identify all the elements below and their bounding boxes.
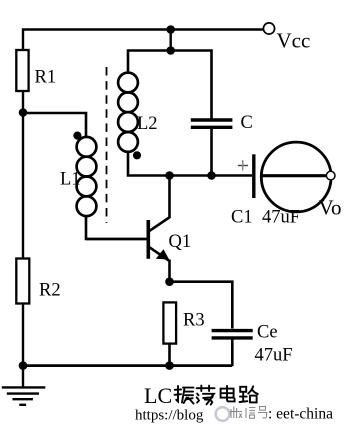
resistor R1	[16, 50, 28, 91]
phase dot L2	[133, 151, 141, 159]
wire left vertical (node A to R2)	[22, 113, 24, 261]
node C dot (collector junction)	[165, 171, 174, 180]
capacitor Ce bottom plate	[212, 336, 253, 339]
svg-text:Vo: Vo	[319, 196, 342, 220]
ground	[2, 366, 46, 405]
svg-text:Q1: Q1	[169, 232, 192, 252]
svg-text:https://blog: https://blog	[135, 408, 204, 424]
caption glyph 路	[240, 386, 258, 402]
svg-text:47uF: 47uF	[255, 346, 293, 366]
node G dot (ground rail left)	[19, 361, 28, 370]
wire R2 bottom to ground rail	[22, 304, 24, 367]
wire L1 bottom to Q1 base	[86, 215, 146, 239]
node F dot (R3 to rail)	[165, 361, 174, 370]
terminal Vo	[326, 171, 335, 180]
wire emitter to Ce branch	[170, 282, 233, 329]
node B2 dot	[166, 46, 175, 55]
capacitor Ce top plate	[212, 329, 253, 332]
collector wire	[168, 176, 171, 219]
base wire	[86, 238, 147, 241]
resistor R2	[16, 259, 29, 304]
wire top rail tap vertical	[169, 30, 171, 51]
svg-text:L1: L1	[60, 170, 81, 190]
watermark glyph 微	[230, 407, 242, 419]
collector diagonal	[148, 217, 170, 232]
svg-text:Vcc: Vcc	[277, 29, 311, 53]
wire L2 bottom to collector rail	[128, 151, 252, 176]
polarity + mark	[238, 160, 248, 171]
meter Vo circle	[261, 142, 331, 212]
wire node A to L1 top	[23, 113, 86, 138]
wire ground rail	[22, 364, 232, 367]
caption glyph 振	[175, 386, 194, 404]
wire R3 bottom to rail	[168, 344, 171, 366]
svg-text:R2: R2	[39, 281, 61, 301]
svg-text:R1: R1	[35, 68, 57, 88]
svg-text:L2: L2	[137, 114, 158, 134]
resistor R3	[163, 302, 176, 343]
capacitor C bottom plate	[191, 126, 233, 129]
svg-text:: eet-china: : eet-china	[268, 406, 333, 423]
emitter wire	[168, 260, 171, 283]
wire C bottom to rail	[210, 129, 213, 176]
transistor Q1	[86, 176, 170, 283]
watermark glyph 信	[246, 408, 256, 419]
wire Ce bottom to rail	[231, 340, 234, 367]
caption glyph 电	[221, 386, 235, 402]
wire left vertical (top rail to R1)	[22, 29, 24, 52]
inductor L2	[118, 73, 138, 152]
node D dot (C to rail)	[207, 171, 216, 180]
svg-text:C1: C1	[231, 208, 253, 228]
terminal Vcc	[263, 23, 274, 34]
svg-text:C: C	[241, 113, 253, 133]
emitter diagonal with arrow	[149, 247, 169, 261]
wire L2 top to capacitor C top	[128, 51, 212, 120]
inductor L1	[77, 137, 97, 216]
watermark glyph 号	[258, 407, 268, 419]
phase dot L1	[73, 132, 81, 140]
svg-text:Ce: Ce	[257, 323, 278, 343]
node B1 dot (top rail tap)	[166, 25, 175, 34]
svg-text:LC: LC	[144, 383, 172, 408]
wire R1 bottom to node A	[22, 91, 24, 114]
capacitor C top plate	[191, 118, 233, 121]
watermark logo circle	[216, 407, 230, 421]
base bar	[147, 220, 151, 259]
meter Vo needle line	[261, 174, 327, 177]
wire top rail	[22, 28, 264, 30]
caption glyph 荡	[197, 386, 215, 405]
capacitor C1 plate	[252, 154, 255, 198]
transformer core dashed line	[106, 67, 108, 223]
node E dot (emitter junction)	[165, 277, 174, 286]
node A junction dot (R1/R2/L1)	[19, 108, 28, 117]
svg-text:R3: R3	[183, 311, 205, 331]
